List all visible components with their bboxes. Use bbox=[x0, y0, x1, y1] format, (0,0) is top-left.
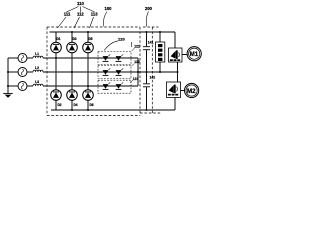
leader 120 bbox=[104, 41, 118, 51]
svg-text:D2: D2 bbox=[58, 103, 62, 107]
svg-text:D1: D1 bbox=[57, 37, 61, 41]
node tie-mid bbox=[137, 71, 139, 73]
wire bbox=[27, 71, 33, 73]
inductor L3 bbox=[33, 84, 43, 86]
inverter U1 bbox=[169, 48, 183, 72]
node phase1-col1 bbox=[55, 57, 57, 59]
svg-text:122: 122 bbox=[134, 60, 140, 64]
svg-text:D6: D6 bbox=[90, 103, 94, 107]
svg-text:200: 200 bbox=[145, 6, 153, 11]
wire bus rise to inverter2 bbox=[174, 98, 176, 111]
node bottom bus cap2 bbox=[146, 109, 148, 111]
svg-text:110: 110 bbox=[77, 1, 85, 6]
capacitor 141 bbox=[143, 32, 154, 72]
wire phase2 to bridge bbox=[43, 71, 178, 73]
wire inverter2 to M2 bbox=[181, 90, 185, 92]
thyristor D3 bbox=[67, 32, 78, 90]
svg-text:D5: D5 bbox=[89, 37, 93, 41]
dashed box 100 bbox=[47, 27, 140, 116]
capacitor 142 bbox=[143, 72, 155, 110]
svg-text:L2: L2 bbox=[35, 66, 39, 70]
inductor L1 bbox=[33, 56, 43, 58]
node bottom bus col2 bbox=[71, 109, 73, 111]
node neutral-L2 bbox=[7, 71, 9, 73]
crossing blobs bbox=[55, 57, 88, 86]
motor M1 bbox=[187, 47, 201, 61]
svg-text:141: 141 bbox=[148, 40, 154, 44]
node mid-block bbox=[159, 71, 161, 73]
switch box 123 bbox=[98, 80, 131, 93]
node top bus block bbox=[159, 31, 161, 33]
node top bus col3 bbox=[87, 31, 89, 33]
bottom DC bus bbox=[51, 109, 175, 111]
leader fan from 110 to 113 bbox=[83, 7, 95, 13]
svg-text:113: 113 bbox=[91, 12, 98, 17]
neutral bus wire bbox=[7, 58, 9, 93]
svg-text:L1: L1 bbox=[35, 52, 39, 56]
wire bus drop to inverter1 bbox=[174, 32, 176, 48]
leader 123 bbox=[130, 80, 133, 82]
braking unit block bbox=[156, 32, 165, 72]
svg-text:D3: D3 bbox=[73, 37, 77, 41]
svg-text:D4: D4 bbox=[74, 103, 78, 107]
wire bbox=[27, 57, 33, 59]
AC source V2 bbox=[8, 71, 18, 73]
leader 112 to bridge bbox=[74, 17, 80, 28]
thyristor D5 bbox=[83, 32, 94, 90]
inductor L2 bbox=[33, 70, 43, 72]
wire inverter1 to M1 bbox=[182, 54, 187, 56]
node phase3-col3 bbox=[87, 85, 89, 87]
svg-text:112: 112 bbox=[77, 12, 84, 17]
node bottom bus col3 bbox=[87, 109, 89, 111]
node neutral-L3 bbox=[7, 85, 9, 87]
svg-text:L3: L3 bbox=[35, 80, 39, 84]
ground bbox=[3, 92, 13, 94]
node phase2-col2 bbox=[71, 71, 73, 73]
leader 111 to bridge bbox=[58, 17, 67, 28]
thyristor D2 bbox=[51, 90, 62, 110]
wire bbox=[27, 85, 33, 87]
thyristor D4 bbox=[67, 90, 78, 110]
svg-text:121: 121 bbox=[134, 45, 140, 49]
motor M2 bbox=[185, 83, 199, 97]
thyristor D6 bbox=[83, 90, 94, 110]
node mid-cap bbox=[146, 71, 148, 73]
leader 200 bbox=[146, 12, 148, 27]
svg-text:100: 100 bbox=[105, 6, 113, 11]
switch box 122 bbox=[98, 66, 131, 79]
leader 121 bbox=[132, 48, 135, 51]
svg-text:M2: M2 bbox=[187, 88, 196, 95]
svg-text:M1: M1 bbox=[190, 51, 199, 58]
leader 113 to bridge bbox=[90, 17, 94, 28]
node top bus cap1 bbox=[146, 31, 148, 33]
thyristor D1 bbox=[51, 32, 62, 90]
switch box 121 bbox=[98, 52, 131, 65]
wire switch tie vertical bbox=[137, 58, 139, 86]
tick near 121 bbox=[131, 42, 133, 47]
AC source V1 bbox=[8, 57, 18, 59]
dashed box 200 bottom edge bbox=[140, 112, 161, 114]
leader fan from 110 to 111 bbox=[67, 7, 79, 13]
leader fan from 110 to 112 bbox=[80, 7, 82, 13]
dashed box 200 partial top bbox=[143, 26, 159, 28]
inverter U2 bbox=[167, 72, 181, 98]
svg-text:111: 111 bbox=[64, 12, 71, 17]
svg-text:120: 120 bbox=[118, 36, 125, 41]
wire phase3 to bridge bbox=[43, 85, 138, 87]
svg-text:142: 142 bbox=[150, 75, 156, 79]
node top bus col2 bbox=[71, 31, 73, 33]
node mid-inverter bbox=[177, 71, 179, 73]
top DC bus bbox=[50, 31, 176, 33]
AC source V3 bbox=[8, 85, 18, 87]
leader 122 bbox=[132, 64, 135, 66]
leader 100 bbox=[103, 12, 107, 27]
dashed box 200 left edge bbox=[151, 27, 153, 113]
wire phase1 to bridge bbox=[43, 57, 138, 59]
